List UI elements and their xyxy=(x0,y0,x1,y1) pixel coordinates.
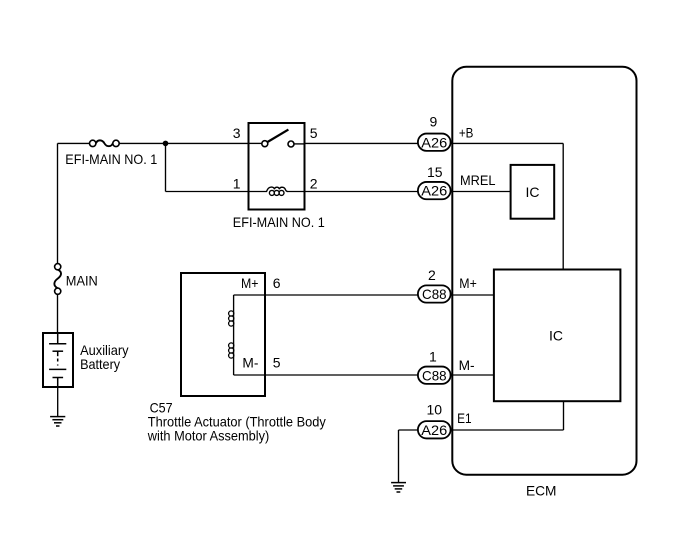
svg-text:M+: M+ xyxy=(459,275,477,291)
ground (E1) xyxy=(391,483,406,492)
connector C88 pin 2 xyxy=(418,267,477,303)
IC (motor driver) inside ECM xyxy=(494,270,621,402)
svg-text:IC: IC xyxy=(526,184,540,200)
svg-text:Battery: Battery xyxy=(80,356,120,372)
svg-text:2: 2 xyxy=(310,175,318,191)
ECM box xyxy=(452,67,636,475)
wire MREL inside ECM xyxy=(451,191,511,193)
svg-text:15: 15 xyxy=(427,164,443,180)
connector A26 pin 9 xyxy=(418,114,474,151)
svg-text:A26: A26 xyxy=(421,183,447,199)
wire battery feed horizontal (top rail) xyxy=(58,142,248,144)
svg-text:6: 6 xyxy=(273,275,281,291)
relay coil xyxy=(266,187,287,192)
wire relay pin5 to ECM +B xyxy=(305,142,419,144)
wire M- inside ECM xyxy=(451,374,495,376)
wire junction drop to relay coil xyxy=(166,143,248,191)
svg-text:9: 9 xyxy=(430,114,438,130)
relay EFI-MAIN NO. 1 xyxy=(233,123,325,230)
fusible link MAIN xyxy=(54,264,97,295)
svg-text:A26: A26 xyxy=(421,134,447,150)
svg-text:1: 1 xyxy=(233,175,241,191)
wire +B inside ECM xyxy=(451,143,564,269)
motor coil inside actuator xyxy=(229,275,281,375)
svg-text:MAIN: MAIN xyxy=(66,273,98,289)
battery Auxiliary Battery xyxy=(43,332,129,388)
svg-text:E1: E1 xyxy=(457,410,472,426)
wire left vertical rail to battery xyxy=(57,143,59,332)
svg-text:1: 1 xyxy=(429,348,437,364)
fuse EFI-MAIN NO. 1 xyxy=(65,140,157,167)
wire battery to ground xyxy=(57,388,59,417)
wire M+ actuator to ECM xyxy=(234,294,419,296)
connector A26 pin 10 xyxy=(418,401,472,438)
svg-text:C88: C88 xyxy=(422,367,447,383)
svg-text:A26: A26 xyxy=(421,422,447,438)
svg-text:10: 10 xyxy=(427,401,443,417)
wire relay internal stubs xyxy=(249,143,306,191)
svg-text:EFI-MAIN NO. 1: EFI-MAIN NO. 1 xyxy=(233,214,325,230)
svg-text:C88: C88 xyxy=(422,286,447,302)
connector A26 pin 15 xyxy=(418,164,496,199)
switch contacts xyxy=(268,130,289,142)
wire M- actuator to ECM xyxy=(234,374,419,376)
svg-text:M+: M+ xyxy=(241,275,259,291)
svg-text:5: 5 xyxy=(310,125,318,141)
wire M+ inside ECM xyxy=(451,294,495,296)
ground (battery) xyxy=(50,417,65,426)
svg-text:EFI-MAIN NO. 1: EFI-MAIN NO. 1 xyxy=(65,151,157,167)
svg-text:M-: M- xyxy=(242,354,258,370)
svg-text:M-: M- xyxy=(459,357,475,373)
svg-text:2: 2 xyxy=(428,267,436,283)
wire E1 inside ECM xyxy=(451,401,564,431)
svg-text:3: 3 xyxy=(233,125,241,141)
node junction dot xyxy=(163,141,169,147)
svg-text:with Motor Assembly): with Motor Assembly) xyxy=(147,428,269,444)
svg-text:ECM: ECM xyxy=(526,483,557,499)
wire E1 to chassis ground xyxy=(399,430,419,482)
connector C88 pin 1 xyxy=(418,348,475,383)
IC (MREL driver) inside ECM xyxy=(511,165,555,219)
throttle actuator box C57 xyxy=(147,273,326,444)
svg-text:+B: +B xyxy=(459,125,474,141)
wire relay pin2 to ECM MREL xyxy=(305,191,419,193)
svg-text:5: 5 xyxy=(273,354,281,370)
svg-text:IC: IC xyxy=(549,327,563,343)
svg-text:MREL: MREL xyxy=(460,172,496,188)
